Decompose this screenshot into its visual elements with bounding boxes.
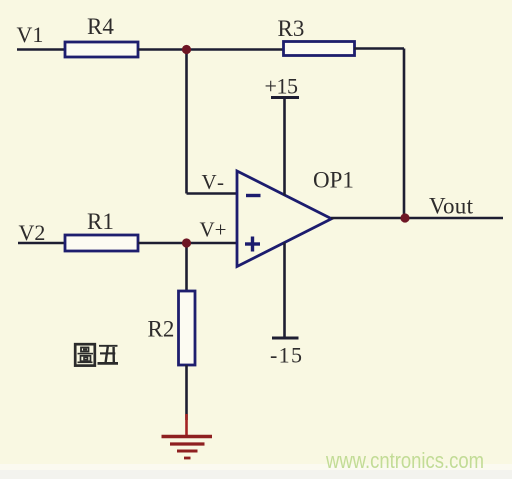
svg-text:OP1: OP1 (313, 168, 354, 193)
wire -15 supply (283, 243, 286, 339)
svg-text:R2: R2 (148, 317, 175, 342)
wire junction A vertical (185, 50, 188, 194)
svg-text:+15: +15 (265, 74, 299, 99)
node V+ junction dot (182, 238, 191, 247)
node Vout junction dot (400, 213, 409, 222)
wire R2 to ground (185, 365, 188, 420)
node junction A dot (182, 45, 191, 54)
svg-text:R4: R4 (87, 14, 114, 39)
svg-text:www.cntronics.com: www.cntronics.com (325, 448, 484, 473)
svg-text:V2: V2 (19, 220, 46, 245)
wire R1 to noninverting input (138, 242, 238, 245)
svg-text:V-: V- (202, 170, 225, 194)
wire output (331, 217, 503, 220)
-15 supply bar (272, 337, 299, 340)
wire to R2 (185, 243, 188, 292)
resistor R4 (65, 42, 138, 57)
resistor R1 (65, 235, 138, 251)
svg-text:R3: R3 (278, 16, 305, 41)
svg-text:V+: V+ (200, 218, 227, 242)
resistor R2 (179, 291, 196, 365)
svg-text:R1: R1 (87, 209, 114, 234)
wire feedback vertical (403, 49, 406, 219)
ground (162, 437, 213, 459)
label figure five (CJK drawn) (75, 344, 118, 365)
wire V1 input (17, 48, 66, 51)
wire ground lead red (185, 414, 188, 437)
wire +15 supply (283, 98, 286, 196)
svg-text:-15: -15 (270, 343, 302, 368)
wire R3 to corner (354, 47, 404, 50)
wire V2 input (18, 242, 66, 245)
op-amp plus sign (245, 237, 260, 252)
op-amp minus sign (246, 194, 261, 197)
wire to inverting input (187, 192, 239, 195)
svg-text:V1: V1 (17, 22, 44, 47)
resistor R3 (284, 42, 355, 56)
svg-text:Vout: Vout (429, 194, 474, 219)
+15 supply bar (271, 96, 299, 99)
wire R4 to R3 (138, 48, 284, 51)
op-amp OP1 (237, 171, 332, 267)
